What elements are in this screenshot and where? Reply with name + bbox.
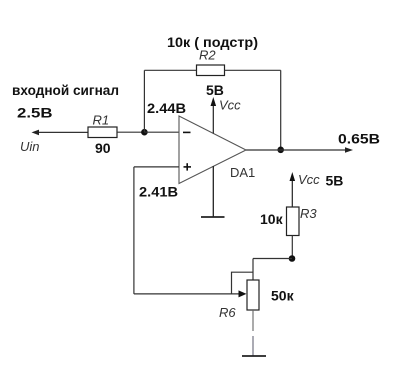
svg-text:90: 90 (95, 140, 111, 156)
wire node A to inverting input (144, 131, 179, 133)
svg-text:DA1: DA1 (230, 165, 255, 180)
svg-text:R1: R1 (93, 112, 110, 127)
svg-text:0.65В: 0.65В (338, 131, 380, 147)
svg-text:10к ( подстр): 10к ( подстр) (167, 34, 258, 50)
resistor R1 (88, 127, 117, 138)
svg-text:5В: 5В (326, 173, 344, 189)
wire non-inverting input horizontal (134, 166, 179, 168)
op-amp inverting input minus sign (183, 131, 191, 133)
wire R1 to node A (117, 131, 144, 133)
wire pot bottom to ground (252, 310, 254, 331)
svg-text:10к: 10к (260, 211, 284, 227)
resistor R3 (287, 207, 300, 236)
wire feedback top left (144, 69, 196, 71)
svg-text:входной сигнал: входной сигнал (12, 82, 119, 98)
ground at op-amp (201, 166, 225, 217)
svg-text:Vcc: Vcc (298, 172, 320, 187)
wire output with right arrow (246, 147, 353, 153)
resistor R2 (197, 65, 225, 76)
wire wiper to top terminal branch (232, 272, 254, 294)
node output junction (277, 147, 284, 154)
node A junction at inverting input (141, 129, 148, 136)
Vcc supply arrow at op-amp (211, 97, 217, 134)
wire to potentiometer wiper with arrow (134, 290, 247, 297)
ground at R6 (242, 355, 266, 357)
svg-text:R3: R3 (300, 206, 317, 221)
op-amp non-inverting input plus sign (184, 163, 192, 170)
potentiometer R6 body (247, 280, 259, 310)
wire feedback top right (225, 69, 281, 71)
svg-text:50к: 50к (271, 288, 295, 304)
svg-text:Vcc: Vcc (219, 98, 241, 113)
Vcc supply arrow at R3 (290, 172, 296, 207)
node junction R3 R6 (289, 255, 296, 262)
op-amp DA1 triangle (179, 116, 246, 184)
svg-text:R6: R6 (219, 305, 236, 320)
svg-text:2.5В: 2.5В (17, 105, 53, 121)
wire pot top vertical (252, 259, 254, 281)
wire input with left arrow (32, 130, 89, 136)
wire non-inverting left vertical (133, 167, 135, 294)
svg-text:Uin: Uin (20, 139, 40, 154)
svg-text:2.44В: 2.44В (147, 100, 186, 116)
wire junction to pot top horizontal (253, 258, 292, 260)
wire feedback right vertical (280, 70, 282, 150)
wire R3 to junction node (291, 236, 293, 259)
wire feedback left vertical (143, 70, 145, 132)
svg-text:5В: 5В (206, 82, 224, 98)
svg-text:2.41В: 2.41В (139, 184, 178, 200)
